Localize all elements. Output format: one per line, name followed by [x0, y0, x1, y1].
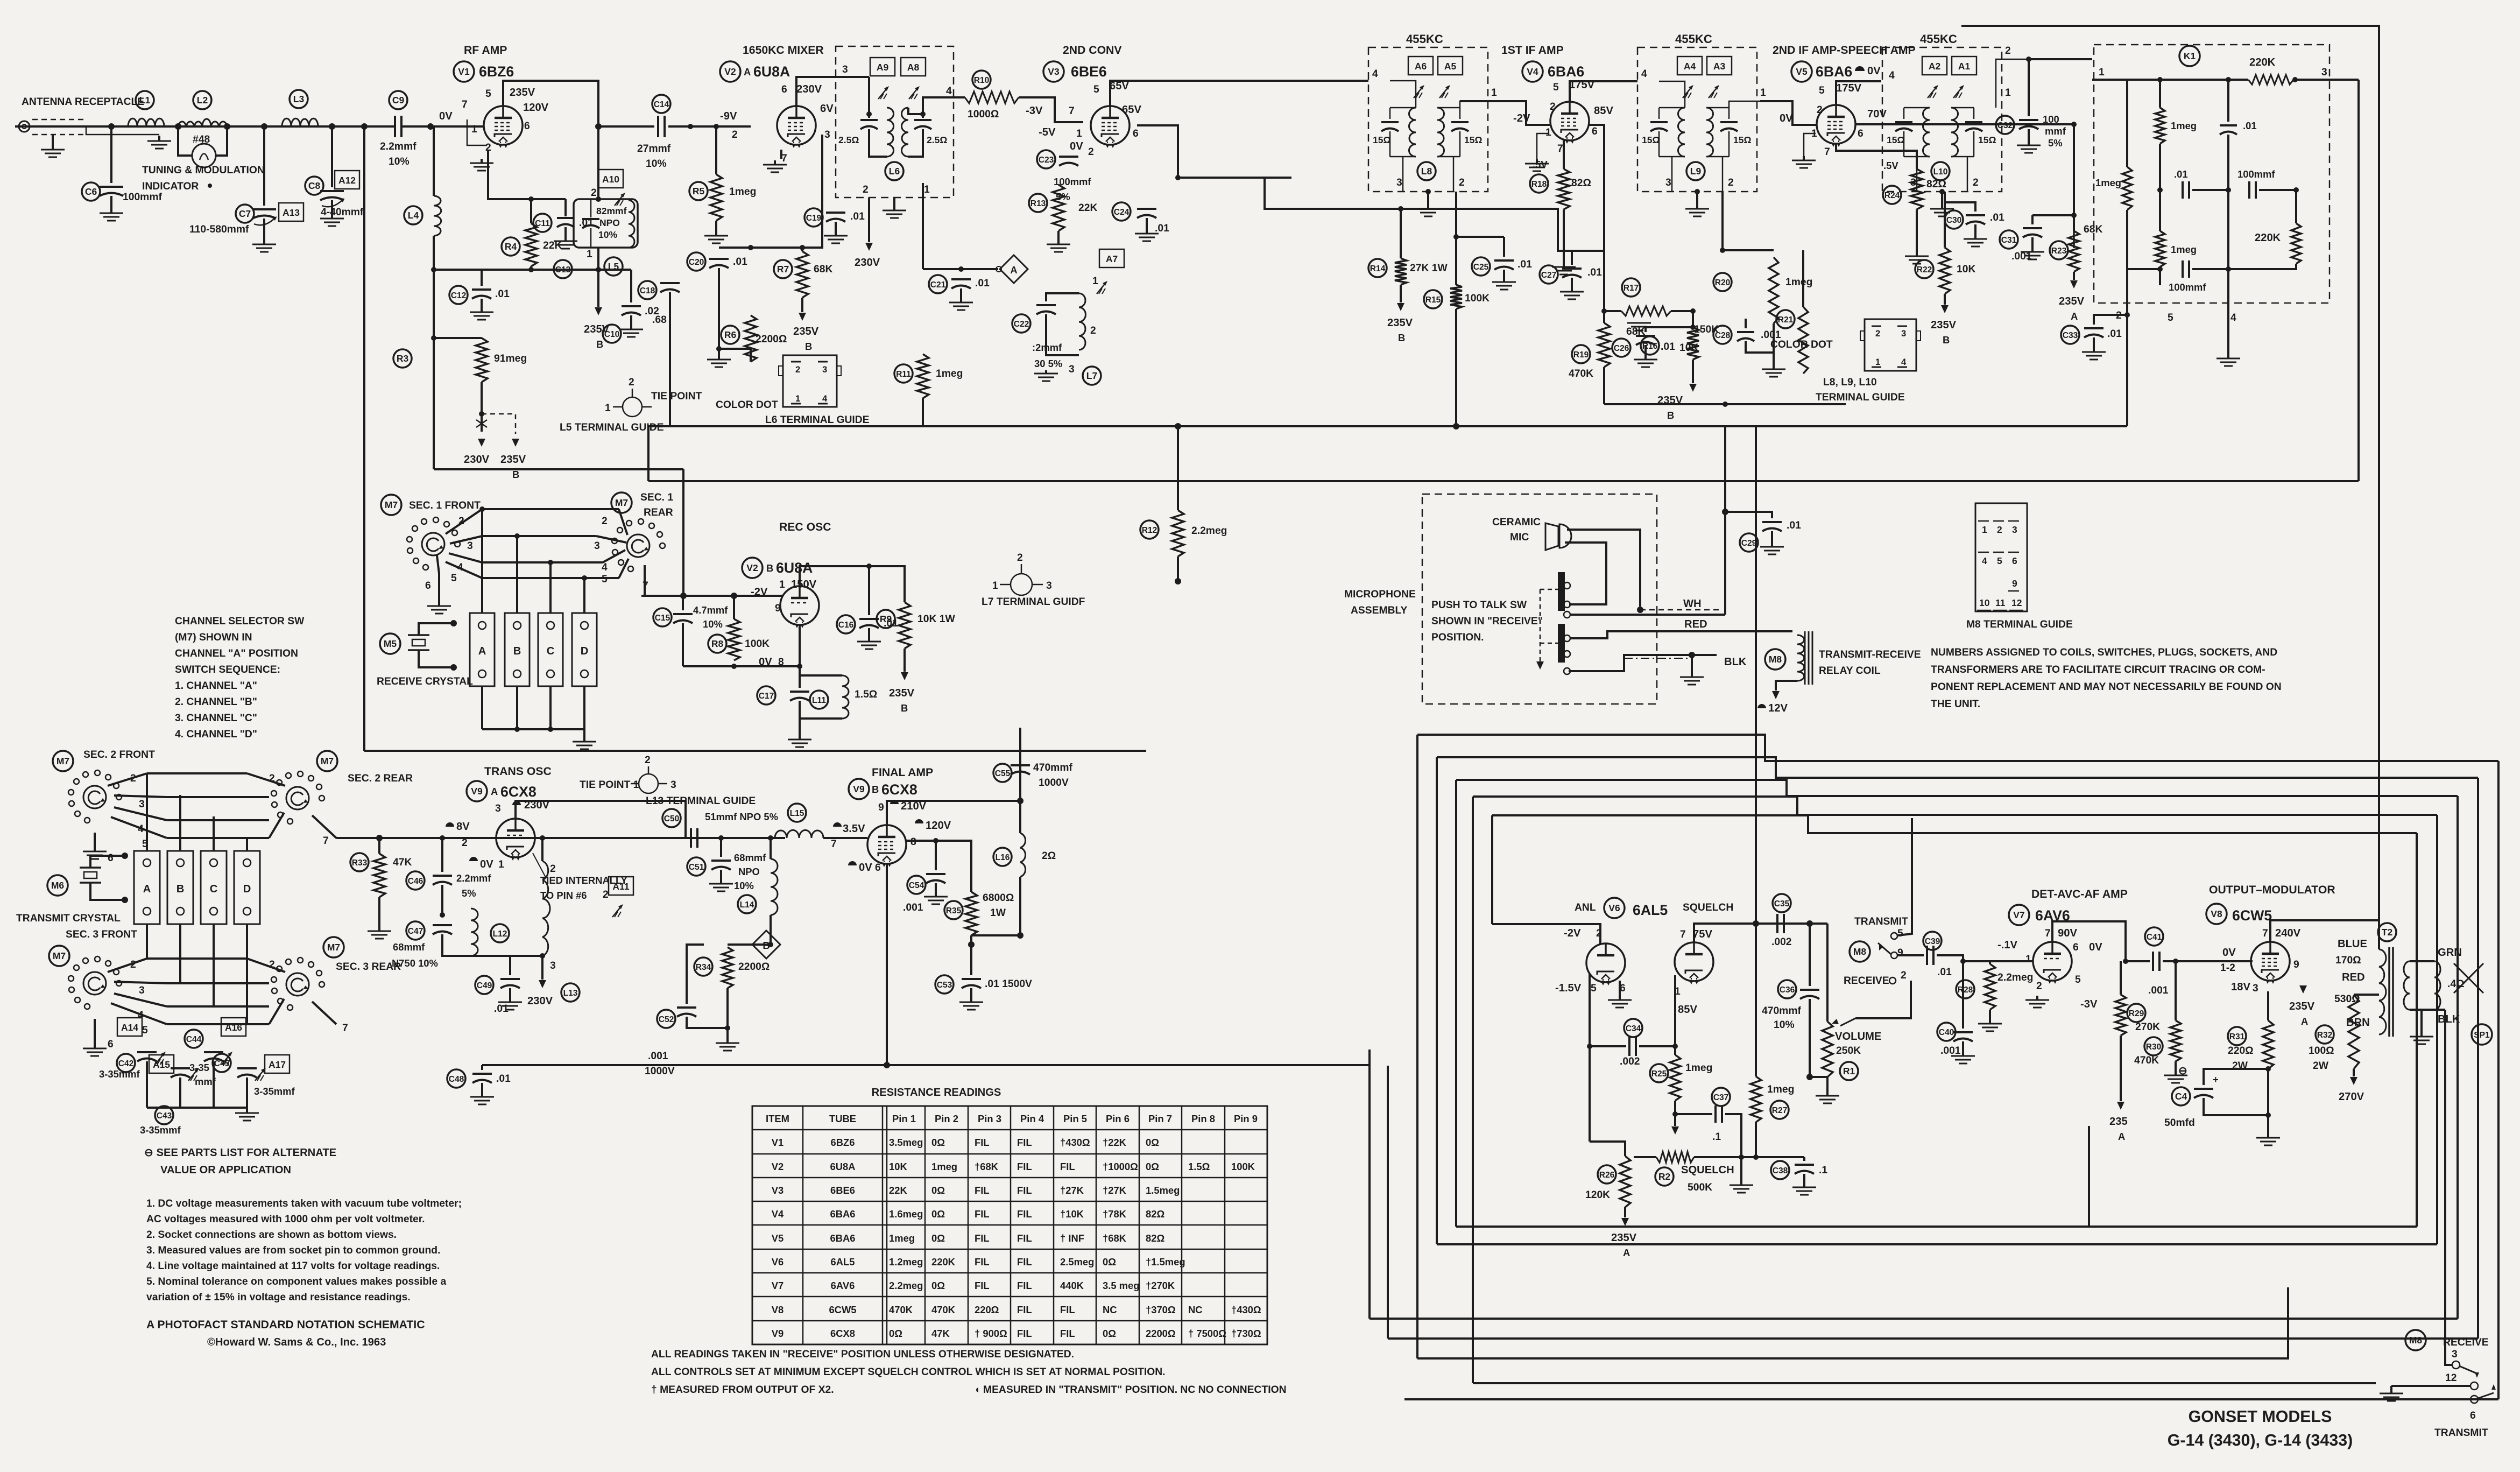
svg-text:230V: 230V — [527, 995, 553, 1007]
wire s2 bus2 — [167, 796, 269, 798]
svg-text:1meg: 1meg — [1685, 1062, 1712, 1074]
wire C16 gnd — [868, 628, 870, 638]
arrow L5 235V — [595, 307, 602, 315]
label V3 pin5 — [1093, 84, 1099, 95]
wire c45 bot — [246, 1077, 248, 1108]
junction R17 left — [1601, 308, 1607, 314]
capacitor C31 — [2023, 228, 2042, 237]
wire R22 col2 — [1944, 192, 1946, 248]
label C39 value — [1937, 967, 1952, 978]
svg-text:.01: .01 — [733, 256, 747, 267]
capacitor C31 designator — [2000, 230, 2018, 249]
svg-text:5: 5 — [1093, 84, 1099, 95]
label M8 t9 — [1897, 947, 1903, 959]
lamp #48 tuning indicator — [192, 144, 216, 167]
svg-text:Pin 8: Pin 8 — [1191, 1113, 1215, 1124]
svg-text:3-35: 3-35 — [189, 1062, 209, 1073]
switch M8 contact 5 — [1891, 933, 1897, 939]
resistor R22 designator — [1915, 260, 1933, 278]
trimmer arrow L5 — [615, 193, 625, 206]
svg-text:C49: C49 — [477, 981, 492, 990]
svg-text:1: 1 — [779, 579, 785, 590]
svg-text:L11: L11 — [812, 696, 826, 705]
label RELAY COIL — [1819, 665, 1881, 677]
arrow R14 235V — [1397, 303, 1404, 311]
label R13 value — [1078, 202, 1097, 214]
wire R14 arrow — [1400, 285, 1402, 302]
label C47 tol — [392, 957, 438, 969]
label V2A pin7 — [781, 153, 787, 164]
svg-text:235V: 235V — [2059, 295, 2085, 307]
wire enclosure left — [363, 126, 365, 751]
svg-text:12: 12 — [2445, 1372, 2457, 1384]
wire interconnect right 4 — [2436, 815, 2438, 1244]
svg-text:8: 8 — [910, 836, 916, 848]
note general 6 — [146, 1276, 446, 1287]
inductor L12 — [471, 908, 478, 956]
label R27 value — [1767, 1084, 1794, 1095]
wire V8 plate — [2270, 920, 2379, 942]
svg-text:4: 4 — [2230, 312, 2236, 323]
label V1 pin1 — [471, 124, 477, 135]
svg-text:6BA6: 6BA6 — [830, 1232, 855, 1244]
wire L10 pri cap — [1903, 108, 1905, 119]
wire BLK gnd — [1691, 655, 1693, 674]
svg-text:1. CHANNEL "A": 1. CHANNEL "A" — [175, 680, 257, 692]
inductor L4 designator — [404, 206, 422, 224]
capacitor C10 designator — [603, 325, 621, 343]
wire C14 to V2A — [668, 125, 751, 128]
wire R12 bot — [1177, 557, 1179, 581]
junction B rail — [1723, 402, 1728, 407]
svg-text:PONENT REPLACEMENT AND MAY NOT: PONENT REPLACEMENT AND MAY NOT NECESSARI… — [1931, 681, 2282, 693]
svg-text:1meg: 1meg — [729, 186, 756, 198]
svg-text:ASSEMBLY: ASSEMBLY — [1351, 605, 1407, 616]
junction R4 top — [528, 196, 534, 202]
wire R11 bottom — [922, 398, 924, 426]
svg-text:R3: R3 — [397, 353, 409, 364]
resistor R19 designator — [1572, 345, 1590, 363]
wire M8 c9 wire — [1897, 954, 1924, 956]
label V2A 230V — [796, 83, 822, 95]
label TRANSMIT-RECEIVE — [1819, 649, 1921, 660]
label TERMINAL GUIDE right — [1816, 392, 1905, 403]
wire C28 up — [1745, 319, 1747, 328]
switch M7 sec3 front designator — [49, 946, 69, 966]
note general 4 — [146, 1245, 440, 1256]
label C10 value — [645, 306, 659, 317]
svg-text:235V: 235V — [889, 687, 915, 699]
wire L10 pri bot — [1904, 156, 1930, 158]
label SEC 3 FRONT — [66, 929, 137, 940]
resistor R15 — [1450, 285, 1462, 309]
wire rail 1979 right — [878, 1064, 1370, 1066]
svg-text:1: 1 — [1982, 524, 1987, 535]
label L6 pin4 — [946, 86, 952, 97]
label R4 value — [543, 240, 562, 251]
junction bus1 A — [479, 506, 485, 512]
label RF AMP — [464, 44, 507, 57]
wire v2579 — [1387, 1066, 1389, 1339]
wire C20 R6 top — [719, 246, 802, 249]
svg-text:M8: M8 — [2409, 1335, 2423, 1346]
switch m8b 6 arrow — [2491, 1384, 2496, 1390]
wire top outer — [1961, 26, 2379, 949]
svg-text:9: 9 — [878, 802, 884, 813]
svg-text:7: 7 — [1824, 146, 1830, 158]
svg-text:Pin 5: Pin 5 — [1063, 1113, 1087, 1124]
tube V4 type 6BA6 — [1548, 64, 1584, 80]
svg-text:1ST IF AMP: 1ST IF AMP — [1501, 44, 1564, 57]
wire trimmer common2 — [147, 1107, 247, 1109]
trimmer arrow L10 right — [1953, 85, 1964, 98]
wire R24 gnd — [1916, 209, 1918, 253]
svg-text:68mmf: 68mmf — [393, 941, 425, 953]
svg-text:1meg: 1meg — [2171, 120, 2197, 131]
wire C48 gnd — [481, 1083, 483, 1094]
wire PTT link — [1540, 589, 1541, 662]
wire relay bot — [1776, 681, 1797, 691]
ground V7 — [2025, 996, 2049, 1008]
ground C19 — [824, 233, 848, 243]
trimmer A16 box — [221, 1018, 246, 1036]
wire s3f fan5 — [111, 1003, 167, 1024]
wire C53 gnd — [970, 988, 972, 999]
wire s2f fan2 — [108, 773, 147, 786]
svg-text:V5: V5 — [772, 1232, 784, 1244]
svg-text:9: 9 — [2293, 959, 2299, 970]
wire R20 h — [1723, 249, 1774, 251]
label V6 -1.5V — [1555, 982, 1582, 994]
label C45 value — [254, 1086, 295, 1097]
ground C8 — [320, 215, 344, 226]
label V8 pin7 — [2262, 928, 2268, 939]
wire R19 bot — [1603, 367, 1605, 404]
svg-text:4. Line voltage maintained a: 4. Line voltage maintained at 117 volts … — [146, 1260, 440, 1272]
label C22 tol — [1034, 358, 1062, 369]
wire C52 bot — [687, 1017, 728, 1028]
wire L10 sec bot — [1951, 156, 1974, 158]
inductor L11 — [842, 675, 849, 719]
wire tank bot — [799, 701, 801, 736]
wire R34 wire — [728, 943, 771, 946]
wire s3f fan2 — [108, 959, 147, 972]
arrow 12V — [1772, 691, 1780, 699]
wire C25 wire — [1456, 236, 1504, 238]
svg-text:†1000Ω: †1000Ω — [1103, 1161, 1138, 1172]
svg-text:6AV6: 6AV6 — [831, 1280, 855, 1291]
svg-text:M8 TERMINAL GUIDE: M8 TERMINAL GUIDE — [1966, 619, 2073, 630]
svg-text:1-2: 1-2 — [2220, 962, 2235, 974]
capacitor C32 designator — [1996, 116, 2014, 134]
svg-text:B: B — [766, 562, 773, 574]
wire s1r fan2 — [619, 509, 627, 535]
label 2.5 right — [927, 135, 947, 145]
wire R5 gnd — [715, 221, 717, 233]
wire pin8 out — [906, 840, 952, 842]
svg-text:ANL: ANL — [1575, 902, 1596, 913]
wire K1 v2 — [2159, 80, 2161, 108]
capacitor C14 designator — [652, 95, 670, 113]
resistor R25 — [1670, 1055, 1681, 1101]
label tuning modulation 1 — [142, 165, 265, 176]
crystal M6 transmit — [80, 868, 101, 883]
svg-text:3: 3 — [842, 64, 848, 75]
svg-text:FIL: FIL — [1017, 1137, 1032, 1148]
wire sec bot — [2410, 1009, 2445, 1011]
ground R6 — [707, 356, 731, 367]
ground C32 — [2017, 142, 2041, 153]
wire L10 sec cap b — [1973, 131, 1975, 157]
svg-text:†68K: †68K — [975, 1161, 999, 1172]
capacitor C14 — [658, 116, 665, 137]
label C30 value — [1990, 212, 2004, 223]
svg-text:100Ω: 100Ω — [2309, 1045, 2334, 1057]
svg-text:1: 1 — [1760, 87, 1766, 98]
capacitor K1 .01 h — [2183, 181, 2189, 199]
junction C46 top — [440, 835, 445, 841]
svg-text:0Ω: 0Ω — [1103, 1256, 1116, 1267]
capacitor C25 designator — [1472, 257, 1490, 276]
wire m8b 3 wire — [2445, 1363, 2452, 1365]
capacitor C29 designator — [1740, 533, 1758, 552]
label R7 value — [814, 264, 832, 275]
svg-text:4: 4 — [1372, 68, 1378, 80]
label V9B pin7 — [831, 839, 837, 850]
svg-text:†270K: †270K — [1146, 1280, 1175, 1291]
svg-text:R25: R25 — [1651, 1069, 1667, 1079]
label M8 tg 3 — [2008, 521, 2019, 535]
svg-text:AC voltages measured with 1000: AC voltages measured with 1000 ohm per v… — [146, 1214, 425, 1225]
capacitor C8 designator — [305, 177, 323, 195]
svg-text:A4: A4 — [1684, 61, 1696, 72]
junction C36 bot — [1806, 1074, 1813, 1080]
ground V1 cathode — [470, 159, 493, 171]
svg-text:0V: 0V — [439, 110, 453, 122]
svg-text:A: A — [491, 786, 498, 797]
svg-text:RECEIVE CRYSTAL: RECEIVE CRYSTAL — [377, 676, 473, 687]
label V9A pin3 — [495, 803, 501, 814]
svg-text:C43: C43 — [157, 1111, 172, 1121]
label 0V V5g — [1780, 112, 1793, 124]
svg-text:6BZ6: 6BZ6 — [479, 64, 514, 80]
wire bottom rail 2450 — [1370, 1318, 2458, 1320]
svg-text:C26: C26 — [1614, 344, 1629, 353]
svg-text:85V: 85V — [1594, 105, 1613, 117]
wire crystal B bot — [516, 686, 518, 729]
svg-text:2. Socket connections are sh: 2. Socket connections are shown as botto… — [146, 1229, 397, 1241]
tube V9A type 6CX8 — [500, 784, 537, 800]
wire V6 anl gnd — [1619, 981, 1621, 997]
svg-text:6: 6 — [875, 862, 881, 874]
transformer T2 core — [2389, 947, 2393, 1037]
inductor L9 designator — [1686, 162, 1705, 180]
svg-text:2200Ω: 2200Ω — [756, 334, 787, 345]
crystal C transmit box — [201, 851, 227, 924]
ground m8b — [2380, 1390, 2403, 1401]
ground L9 — [1685, 206, 1709, 216]
label B R9 — [901, 702, 908, 714]
svg-text:D: D — [581, 645, 589, 657]
wire rail 894 — [648, 480, 1756, 482]
svg-text:K1: K1 — [2184, 51, 2196, 61]
svg-text:3: 3 — [2012, 524, 2017, 535]
junction K1 g — [2226, 77, 2231, 82]
label ANL — [1575, 902, 1596, 913]
junction K1 3 — [2292, 77, 2298, 82]
svg-text:1meg: 1meg — [889, 1232, 915, 1244]
svg-text:C4: C4 — [2175, 1091, 2187, 1102]
svg-text:C44: C44 — [186, 1035, 202, 1044]
label 455KC L8 — [1406, 32, 1443, 46]
note copyright — [207, 1336, 386, 1348]
junction R15 rail — [1453, 423, 1459, 429]
resistor R9 designator — [877, 610, 895, 628]
capacitor C13 — [582, 219, 599, 228]
wire V7 input — [1963, 960, 2033, 962]
capacitor C24 designator — [1112, 202, 1131, 221]
junction R30 top — [2173, 959, 2178, 964]
svg-text:VALUE OR APPLICATION: VALUE OR APPLICATION — [160, 1164, 291, 1176]
crystal B transmit box — [167, 851, 193, 924]
label K1 .01 v — [2243, 120, 2257, 131]
wire C49 wire — [509, 956, 511, 975]
svg-text:3: 3 — [1396, 177, 1402, 188]
svg-text:0V: 0V — [2089, 941, 2102, 953]
label C18 value — [652, 314, 667, 326]
wire C20 down — [718, 268, 720, 349]
capacitor C6 — [100, 187, 123, 196]
tube V4 6BA6 — [1550, 102, 1589, 144]
trimmer A9 box — [870, 58, 895, 76]
svg-text:.01: .01 — [2107, 328, 2122, 340]
junction R3 top — [431, 335, 436, 341]
junction V2B plate node — [866, 564, 872, 569]
capacitor C22 — [1036, 305, 1056, 314]
svg-text:220K: 220K — [931, 1256, 956, 1267]
wire C31 gnd — [2031, 237, 2034, 249]
svg-text:L6 TERMINAL GUIDE: L6 TERMINAL GUIDE — [765, 414, 870, 426]
svg-text:B: B — [805, 341, 812, 352]
wire bottom rail 2487 — [1388, 1337, 2478, 1340]
svg-text:6: 6 — [524, 121, 530, 132]
svg-text:C54: C54 — [909, 881, 924, 890]
svg-text:† MEASURED FROM OUTPUT OF X: † MEASURED FROM OUTPUT OF X2. — [651, 1384, 834, 1396]
svg-text:C9: C9 — [392, 95, 405, 105]
label K1 220K right — [2255, 232, 2281, 244]
label GRN — [2438, 947, 2462, 959]
label R20 value — [1785, 277, 1812, 288]
svg-text:C13: C13 — [555, 265, 571, 274]
wire R5 top — [715, 126, 717, 174]
svg-text:A12: A12 — [338, 175, 356, 186]
pot R2 squelch — [1656, 1152, 1694, 1163]
svg-text:R17: R17 — [1623, 284, 1639, 293]
capacitor C53 — [962, 979, 981, 988]
wire mic bot — [1565, 543, 1606, 604]
label 235V R9 — [889, 687, 915, 699]
svg-text:variation of ± 15% in voltage: variation of ± 15% in voltage and resist… — [146, 1292, 411, 1303]
svg-text:100mmf: 100mmf — [123, 192, 162, 203]
wire K1 t4 gnd — [2227, 303, 2229, 355]
label C9 tol — [389, 156, 410, 167]
wire C27 gnd — [1571, 278, 1573, 288]
ground C25 — [1492, 279, 1516, 290]
svg-text:M7: M7 — [321, 756, 334, 766]
wire R35 top — [952, 841, 971, 892]
label V3 65V a — [1110, 80, 1129, 92]
transformer L8 box — [1368, 47, 1488, 192]
wire tcrystal D down — [246, 924, 248, 1024]
capacitor C34 — [1629, 1037, 1636, 1056]
svg-text:2ND CONV: 2ND CONV — [1063, 44, 1122, 57]
wire PTT arm1 — [1540, 589, 1558, 590]
svg-text:TUNING & MODULATION: TUNING & MODULATION — [142, 165, 265, 176]
label K1 1meg left — [2095, 177, 2121, 188]
resistor K1 220K right — [2291, 223, 2301, 264]
svg-text:6CW5: 6CW5 — [829, 1304, 856, 1315]
label GONSET MODELS — [2189, 1407, 2332, 1426]
wire 235VA rail — [1456, 1226, 2417, 1228]
wire C53 col — [970, 945, 972, 975]
terminal guide L8 L9 L10 — [1860, 319, 1921, 371]
svg-text:SEC. 1 FRONT: SEC. 1 FRONT — [409, 500, 481, 511]
wire s3 bus2 — [167, 982, 269, 984]
label 230V — [464, 454, 490, 466]
svg-text:18V: 18V — [2231, 981, 2250, 993]
label 1ST IF AMP — [1501, 44, 1564, 57]
ground C21 — [949, 299, 973, 310]
label V9A part A — [491, 786, 498, 797]
speaker voice coil — [2434, 961, 2440, 1010]
tube V2A 6U8A pentode — [777, 106, 816, 148]
junction bus3 C — [548, 560, 553, 565]
capacitor C9 designator — [389, 91, 407, 109]
svg-text:3: 3 — [1910, 177, 1916, 188]
wire enclosure bottom — [364, 750, 1146, 752]
junction C7 — [261, 123, 267, 130]
svg-text:FIL: FIL — [1060, 1161, 1075, 1172]
svg-text:C23: C23 — [1039, 156, 1054, 165]
resistor R23z — [2073, 231, 2075, 248]
junction R8 top — [731, 593, 737, 599]
junction R7 top — [800, 245, 805, 250]
resistor R34 — [722, 947, 733, 988]
label R19 value — [1569, 368, 1593, 379]
wire L10 out top — [1996, 59, 2029, 108]
label V3 pin6 — [1133, 128, 1139, 139]
svg-text:0V: 0V — [1780, 112, 1793, 124]
capacitor C51 designator — [687, 857, 705, 876]
svg-text:235V: 235V — [510, 87, 535, 98]
svg-text:TERMINAL GUIDE: TERMINAL GUIDE — [1816, 392, 1905, 403]
svg-text:455KC: 455KC — [1406, 32, 1443, 46]
inductor L2 designator — [193, 91, 211, 109]
wire V5 plate — [1836, 81, 1881, 105]
svg-text:2: 2 — [591, 187, 597, 199]
label BLK — [1724, 656, 1747, 668]
svg-text:4: 4 — [1889, 70, 1895, 81]
wire R27 bot — [1755, 1122, 1757, 1157]
svg-text:91meg: 91meg — [494, 353, 527, 364]
svg-text:COLOR DOT: COLOR DOT — [1770, 339, 1833, 350]
label 0V V5top — [1867, 65, 1881, 77]
capacitor C41 — [2153, 952, 2159, 971]
svg-text:FIL: FIL — [1060, 1328, 1075, 1339]
svg-text:SP1: SP1 — [2474, 1031, 2490, 1040]
ground R33 — [368, 928, 391, 939]
svg-text:V6: V6 — [772, 1256, 784, 1267]
